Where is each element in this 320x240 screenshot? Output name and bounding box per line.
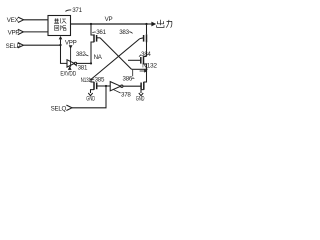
inverter U381 triangle	[67, 60, 74, 67]
transistor Q361 PMOS source lead	[91, 24, 94, 35]
label 386	[123, 76, 133, 83]
node SELQ input chevron	[66, 105, 72, 110]
transistor Q386 channel	[143, 82, 145, 90]
label 382	[76, 51, 86, 58]
transistor Q384 drain stub	[144, 56, 147, 58]
arrow EXVDD supply	[70, 66, 72, 68]
wire SELP down to inverter input	[61, 45, 68, 63]
label 378 leader	[114, 90, 121, 93]
transistor Q385 gate bar	[96, 83, 98, 90]
transistor Q383 gate bar	[143, 35, 145, 42]
svg-text:VP: VP	[105, 16, 113, 23]
svg-text:381: 381	[78, 64, 88, 71]
label 386 leader	[132, 70, 135, 79]
label 382 leader	[85, 54, 88, 56]
transistor Q384 channel	[143, 56, 145, 64]
label 371	[72, 7, 82, 14]
transistor Q383 gate wire	[140, 37, 144, 40]
label N131	[81, 77, 92, 84]
label 385	[95, 77, 105, 84]
arrow SELP into box bottom	[60, 39, 62, 45]
junction SELQ gate tee	[105, 85, 107, 87]
inverter U381 bubble	[74, 62, 76, 64]
svg-text:361: 361	[96, 29, 106, 36]
wire node N132 horizontal	[132, 68, 147, 70]
transistor Q361 gate bar	[96, 35, 98, 42]
inverter U378 triangle	[110, 82, 120, 91]
label VP	[105, 16, 113, 23]
label 出力	[157, 20, 173, 28]
junction diagonal B on column	[90, 78, 92, 80]
label EXVDD	[60, 70, 76, 77]
ground symbol right	[139, 93, 143, 96]
transistor Q384 gate bar	[140, 57, 142, 64]
svg-text:GND: GND	[136, 96, 145, 103]
svg-text:N132: N132	[142, 62, 157, 69]
svg-text:N131: N131	[81, 77, 92, 84]
transistor Q383 channel	[146, 34, 148, 42]
transistor Q361 drain lead	[91, 42, 94, 63]
junction SELP tee	[59, 44, 61, 46]
label 383 leader	[129, 32, 132, 34]
junction rail left PMOS	[90, 23, 92, 25]
junction inverter output on column	[90, 62, 92, 64]
wire SELQ to Q385 gate	[72, 86, 106, 108]
label N132 arrow leader	[140, 70, 145, 72]
transistor Q386 gate bar	[140, 83, 142, 90]
ground label right	[136, 96, 145, 103]
arrow VPP supply	[69, 45, 73, 49]
transistor Q384 source stub	[144, 64, 147, 69]
wire VPP to selection circuit	[23, 31, 48, 33]
junction rail right PMOS	[145, 23, 147, 25]
svg-text:378: 378	[121, 92, 131, 99]
transistor Q385 gate wire	[97, 85, 111, 87]
node SELP input chevron	[18, 43, 24, 48]
label 378	[121, 92, 131, 99]
transistor Q385 source lead	[91, 90, 95, 93]
label 371 leader	[65, 10, 71, 12]
node NA label	[94, 54, 103, 61]
wire SELP horizontal	[23, 44, 60, 46]
selection circuit U371 text 回路	[54, 25, 66, 30]
inverter U378 bubble	[121, 85, 123, 87]
node SELQ input label	[51, 105, 67, 112]
junction N132 column	[146, 68, 148, 70]
transistor Q385 channel	[93, 82, 95, 90]
node VEX input chevron	[18, 17, 24, 22]
svg-text:383: 383	[119, 29, 129, 36]
svg-text:382: 382	[76, 51, 86, 58]
svg-text:EXVDD: EXVDD	[60, 70, 76, 77]
node SELP input label	[6, 43, 21, 50]
transistor Q361 channel	[93, 34, 95, 42]
wire VEX to selection circuit	[24, 19, 48, 21]
wire cross-couple diagonal B (node N131 to Q383 gate)	[91, 39, 140, 80]
transistor Q385 drain lead	[91, 79, 94, 82]
svg-text:VPP: VPP	[8, 30, 20, 37]
node VEX input label	[7, 17, 19, 24]
ground symbol left	[88, 93, 92, 96]
label 361 leader	[92, 31, 95, 34]
label 384	[141, 51, 151, 58]
label N132	[142, 62, 157, 69]
label VPP above inverter	[65, 39, 77, 46]
label 381 leader	[75, 65, 77, 67]
arrow output 出力	[147, 23, 152, 25]
ground label left	[86, 96, 95, 103]
label 385 leader	[92, 78, 95, 81]
selection circuit U371 text 選択	[54, 18, 66, 23]
label 384 leader	[139, 55, 141, 57]
svg-text:371: 371	[72, 7, 82, 14]
label 381	[78, 64, 88, 71]
svg-text:GND: GND	[86, 96, 95, 103]
label 383	[119, 29, 129, 36]
svg-text:386: 386	[123, 76, 133, 83]
wire cross-couple diagonal A (Q361 gate to node N132)	[100, 38, 132, 70]
transistor Q383 drain lead	[146, 42, 148, 57]
svg-text:NA: NA	[94, 54, 103, 61]
label 361	[96, 29, 106, 36]
transistor Q386 drain lead	[144, 69, 147, 82]
transistor Q386 source lead	[141, 90, 144, 93]
wire box output to VP rail	[71, 23, 147, 25]
svg-text:384: 384	[141, 51, 151, 58]
svg-text:VEX: VEX	[7, 17, 19, 24]
transistor Q384 gate wire	[128, 59, 141, 61]
transistor Q383 PMOS source lead	[146, 24, 148, 34]
svg-text:SELQ: SELQ	[51, 105, 67, 112]
wire inverter 378 output to Q386 gate	[123, 85, 141, 87]
wire inverter output to node NA column	[77, 62, 91, 64]
node VPP input label	[8, 30, 20, 37]
node VPP input chevron	[18, 29, 24, 34]
svg-text:SELP: SELP	[6, 43, 21, 50]
selection circuit U371 box	[48, 16, 71, 36]
transistor Q361 gate wire	[97, 37, 100, 39]
